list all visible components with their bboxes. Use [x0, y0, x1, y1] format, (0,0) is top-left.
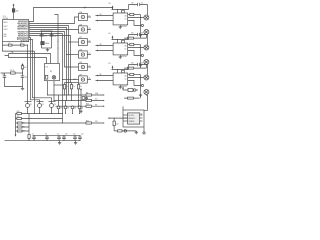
- wire serial TX: [5, 54, 51, 64]
- svg-text:1k: 1k: [80, 86, 82, 88]
- wire stub above bottom box: [122, 106, 124, 110]
- svg-text:O5: O5: [89, 65, 91, 67]
- svg-text:C2: C2: [125, 49, 127, 51]
- node rails: [47, 94, 82, 106]
- lamp M4: [144, 60, 149, 65]
- resistor R31: [130, 43, 134, 45]
- power arrow aux: [122, 87, 128, 91]
- svg-text:IN1: IN1: [100, 14, 102, 16]
- wire leds to rail: [59, 109, 80, 114]
- node mid net b: [57, 47, 58, 48]
- node crystal left: [41, 30, 42, 31]
- rail y122.5 end arrow: [103, 122, 105, 124]
- buzzer circle: [52, 76, 56, 80]
- power arrow OC2: [112, 36, 114, 40]
- led D1: [57, 95, 62, 109]
- buffer U2C: [79, 37, 88, 46]
- wire OC1 pin3: [128, 21, 142, 26]
- wire load vertical OC1: [140, 15, 142, 39]
- wire pin RB3 down to rail B via U2D: [29, 28, 67, 101]
- svg-text:C9: C9: [57, 133, 59, 135]
- rail OC3: [112, 69, 129, 71]
- wire crystal right leg: [51, 31, 53, 48]
- wire crystal bottom: [42, 47, 52, 49]
- resistor R6 pullup: [70, 85, 75, 89]
- wire pin RB5 to buffer U2E: [29, 32, 79, 68]
- led D4: [78, 106, 83, 109]
- connector circle module right: [143, 132, 145, 134]
- svg-text:C13: C13: [116, 123, 119, 125]
- node box G bus a: [53, 84, 54, 85]
- svg-text:PS2501: PS2501: [122, 26, 128, 28]
- node R3/R2: [22, 72, 23, 73]
- power arrow OC1: [112, 6, 114, 10]
- svg-text:C10: C10: [65, 133, 68, 135]
- wire C5 down: [22, 77, 24, 86]
- rail A resistor R8: [86, 92, 92, 96]
- capacitor C30 top wire: [129, 34, 148, 36]
- svg-text:1k: 1k: [73, 86, 75, 88]
- svg-text:D2: D2: [67, 107, 69, 109]
- node rail OC1: [117, 9, 118, 10]
- bottom-right module inner X2: [128, 113, 140, 124]
- rail B resistor R9: [86, 98, 92, 102]
- wire feed U2F: [63, 79, 79, 81]
- ground OC3: [119, 85, 122, 89]
- svg-text:4k7: 4k7: [24, 67, 27, 69]
- svg-text:NO: NO: [141, 113, 143, 115]
- wire pullup top rail: [65, 82, 79, 84]
- svg-text:22p: 22p: [54, 35, 57, 37]
- resistor R17 vertical: [28, 135, 30, 139]
- resistor R40: [122, 70, 125, 74]
- svg-text:R10: R10: [86, 104, 89, 106]
- wire load vertical OC2: [140, 45, 142, 69]
- svg-text:10u: 10u: [25, 77, 28, 79]
- connector circle OC1: [141, 24, 143, 26]
- resistor R30: [122, 40, 125, 44]
- svg-text:R2 1k: R2 1k: [10, 70, 14, 72]
- bottom cap row top wire: [33, 134, 81, 136]
- svg-text:22p: 22p: [44, 35, 47, 37]
- module pin stubs right: [140, 115, 143, 121]
- box G buzzer driver: [45, 64, 60, 81]
- node load OC1: [140, 25, 141, 26]
- svg-text:O3: O3: [89, 40, 91, 42]
- lamp M5: [144, 75, 149, 80]
- wire R6 stubs: [71, 83, 73, 101]
- wire long vertical to rail: [34, 51, 36, 113]
- svg-text:Q2: Q2: [42, 104, 44, 106]
- capacitor C12: [78, 133, 83, 140]
- node rail OC3: [117, 69, 118, 70]
- capacitor C30: [131, 33, 143, 37]
- led D3: [71, 106, 76, 109]
- lamp M2: [144, 30, 149, 35]
- optocoupler OC1: [113, 10, 128, 28]
- wire cap rail riser 3: [128, 65, 130, 70]
- svg-text:OSC1: OSC1: [4, 26, 8, 28]
- relay coil aux: [128, 88, 138, 91]
- rail y118: [16, 118, 63, 120]
- svg-text:D4: D4: [81, 107, 83, 109]
- resistor R32: [124, 67, 146, 69]
- transistor Q1: [25, 102, 32, 114]
- pin stubs IC right: [29, 23, 30, 37]
- svg-text:47u: 47u: [141, 3, 144, 5]
- wire OC3 pin1: [128, 74, 141, 76]
- power VCC arrow top-left: [13, 4, 15, 9]
- IC1 left pin labels: [4, 22, 8, 38]
- svg-text:RB7/KBI3/PGD: RB7/KBI3/PGD: [18, 35, 28, 37]
- wire IC bottom rail 1: [3, 42, 28, 45]
- svg-text:SCL: SCL: [95, 99, 98, 101]
- svg-text:R12: R12: [17, 111, 20, 113]
- IC1 right pin labels: [17, 20, 29, 42]
- resistor R15: [17, 126, 25, 129]
- capacitor C8: [45, 133, 49, 140]
- wire lamp M6 bottom: [145, 94, 147, 97]
- wire pin RB4 to buffer U2B: [29, 29, 79, 31]
- wire C6 down to rail: [5, 77, 23, 86]
- svg-text:K1 G5V: K1 G5V: [129, 115, 134, 117]
- optocoupler OC3: [113, 70, 128, 88]
- capacitor C1: [40, 35, 47, 38]
- wire pin RB7 to pullup rail: [29, 36, 71, 83]
- wire pin RB6 down to buffer U2F: [29, 33, 63, 35]
- svg-text:+5V: +5V: [108, 63, 111, 65]
- rail C end arrow: [103, 105, 105, 107]
- wire OC3 pin2 to lamp M5: [128, 77, 144, 79]
- wire transistor Q1 feed: [27, 45, 29, 101]
- node q1 feed: [27, 45, 28, 46]
- ground OC3 load: [139, 95, 142, 97]
- svg-text:IC1: IC1: [3, 16, 6, 18]
- svg-text:OUT: OUT: [95, 121, 98, 123]
- wire R7 stubs: [78, 83, 80, 107]
- wire OC1 pin2 to lamp M1: [128, 17, 144, 19]
- resistor R22: [124, 37, 146, 39]
- capacitor C13 vertical: [113, 118, 119, 131]
- wire left resistor column: [16, 114, 30, 135]
- svg-text:OSC2: OSC2: [4, 29, 8, 31]
- node U2F feed: [62, 79, 63, 80]
- input wire labels: [100, 14, 102, 76]
- resistor R2: [10, 70, 15, 74]
- wire feed U2D: [67, 54, 79, 56]
- rail emitter y113: [16, 113, 63, 115]
- wire bus vertical long: [62, 34, 64, 124]
- svg-text:RC0/T1OSO/T13: RC0/T1OSO/T13: [17, 37, 28, 39]
- svg-text:+5V: +5V: [108, 33, 111, 35]
- wire U2A out to OC1 input 1: [87, 16, 91, 18]
- wire U2C out to OC2 input 1: [87, 41, 91, 43]
- wire vertical mid net: [55, 15, 59, 64]
- svg-text:RC2/CCP1: RC2/CCP1: [21, 41, 28, 43]
- wire cap to lamp column: [147, 5, 149, 15]
- wire OC1 pin1: [128, 14, 141, 16]
- resistor R12: [17, 111, 22, 115]
- ground mid-left: [21, 87, 24, 91]
- wire U2B out to OC1 input 2: [87, 29, 91, 31]
- buffer U2F: [79, 74, 88, 83]
- resistor R5 pullup: [63, 85, 68, 89]
- svg-text:1k: 1k: [66, 86, 68, 88]
- rail C resistor R10: [86, 104, 92, 108]
- wire pin RC1 to transistor Q3 feed: [29, 40, 52, 102]
- node box G bus b: [62, 84, 63, 85]
- svg-text:47u: 47u: [141, 33, 144, 35]
- node rails bottom: [27, 113, 80, 124]
- svg-text:PS2501: PS2501: [122, 86, 128, 88]
- rail B: [54, 100, 103, 102]
- svg-text:R11: R11: [86, 120, 89, 122]
- svg-text:VSS: VSS: [4, 34, 7, 36]
- svg-text:OMRON: OMRON: [129, 121, 135, 123]
- resistor R4 inside box G: [46, 75, 48, 79]
- led D2: [64, 101, 69, 110]
- wire pin RB2 down to rail A via U2C: [29, 26, 69, 96]
- wire input to module: [109, 117, 127, 119]
- ground OC1: [119, 25, 122, 29]
- wire C6 up: [4, 73, 6, 76]
- svg-text:C12: C12: [81, 133, 84, 135]
- node pullup rail: [70, 82, 71, 83]
- transistor Q2: [37, 102, 44, 114]
- svg-text:INT: INT: [95, 104, 97, 106]
- IC1 microcontroller: [3, 16, 29, 42]
- wire load vertical OC3: [140, 75, 142, 99]
- ground crystal: [46, 48, 49, 52]
- connector circle bottom: [124, 130, 127, 133]
- rail A end arrow: [103, 94, 105, 96]
- connector circle OC2: [141, 54, 143, 56]
- svg-text:L1: L1: [8, 43, 10, 45]
- wire OC2 pin2 to lamp M3: [128, 47, 144, 49]
- lamp M6: [144, 90, 149, 95]
- ground OC2: [119, 55, 122, 59]
- capacitor C20 top wire: [129, 4, 148, 6]
- resistor R21: [130, 13, 134, 15]
- ground bottom 1: [58, 141, 61, 145]
- svg-text:R14: R14: [23, 123, 26, 125]
- svg-text:C7: C7: [32, 133, 34, 135]
- bottom-right module outer: [123, 110, 144, 127]
- rail B end arrow: [103, 100, 105, 102]
- wire pin RB1 to buffer U2A: [29, 17, 79, 24]
- rail y122.5 resistor R11: [86, 120, 92, 124]
- buffer U2A: [79, 11, 88, 21]
- svg-text:47u: 47u: [141, 63, 144, 65]
- wire U2D out to OC2 input 2: [87, 54, 91, 56]
- wire pin RB0 to top rail and block1 VCC: [29, 8, 113, 22]
- svg-text:IN3: IN3: [100, 44, 102, 46]
- svg-text:D3: D3: [74, 107, 76, 109]
- svg-text:C11: C11: [73, 133, 76, 135]
- capacitor C11: [73, 133, 77, 140]
- wire IC bottom rail 2: [3, 45, 35, 51]
- ferrite bead L1: [8, 43, 12, 47]
- wire cap rail riser 2: [128, 35, 130, 40]
- wire R1 to IC1: [13, 12, 15, 19]
- wire R2 left: [1, 72, 11, 74]
- svg-text:U2E: U2E: [79, 62, 82, 64]
- optocoupler OC2: [113, 40, 128, 58]
- power arrow mid-left: [22, 63, 24, 66]
- wire OC2 pin3: [128, 51, 142, 56]
- connector circle OC3: [141, 84, 143, 86]
- resistor R7 pullup: [77, 85, 82, 89]
- lamp M3: [144, 45, 149, 50]
- node U2C feed: [68, 41, 69, 42]
- svg-text:O2: O2: [89, 28, 91, 30]
- power arrow OC3: [112, 66, 114, 70]
- ground bottom 2: [74, 141, 77, 145]
- crystal circuit: wire OSC top: [41, 30, 53, 32]
- capacitor C7: [32, 133, 36, 140]
- svg-text:IN5: IN5: [100, 74, 102, 76]
- buffer U2E: [79, 62, 88, 71]
- svg-text:RB5/KBI1/PGM: RB5/KBI1/PGM: [18, 32, 29, 34]
- wire crystal left leg: [41, 31, 43, 48]
- wire serial RX: [9, 54, 47, 64]
- ground OC2 load: [139, 65, 142, 67]
- wire box G leg1: [47, 81, 49, 95]
- bottom-right rail: [114, 130, 136, 132]
- capacitor C9: [57, 133, 61, 140]
- rail A: [48, 94, 103, 96]
- small part K1 stub: [82, 97, 87, 100]
- wire lamp M2 bottom: [145, 35, 147, 39]
- transistor Q3: [49, 102, 56, 114]
- wire R17 to gnd rail: [28, 138, 30, 140]
- capacitor C6: [2, 74, 6, 77]
- capacitor C2: [50, 35, 57, 38]
- svg-text:R13: R13: [17, 116, 20, 118]
- wire R3 down: [22, 69, 24, 76]
- ferrite bead L2: [20, 43, 24, 47]
- buffer U2D: [79, 49, 88, 58]
- wire module right leg: [143, 127, 145, 132]
- arrow input module: [108, 117, 110, 119]
- wire feed U2C: [69, 41, 79, 43]
- wire cap to lamp column 2: [147, 35, 149, 45]
- svg-text:Q1: Q1: [30, 104, 32, 106]
- wire pin RC0 to transistor Q2 feed: [29, 38, 40, 102]
- node mid net a: [57, 41, 58, 42]
- wire R5 stubs: [64, 83, 66, 96]
- bottom gnd rail: [5, 140, 81, 142]
- resistor R1: [12, 9, 18, 13]
- module pin stubs left: [123, 115, 128, 121]
- ground OC1 load: [139, 35, 142, 37]
- svg-text:MCLR: MCLR: [4, 22, 8, 24]
- resistor R41: [130, 73, 134, 75]
- svg-text:L2: L2: [20, 43, 22, 45]
- svg-text:BZ: BZ: [50, 71, 52, 73]
- svg-text:R8: R8: [86, 92, 88, 94]
- rail OC2: [112, 39, 129, 41]
- capacitor C10: [62, 133, 67, 140]
- svg-text:LS1: LS1: [46, 67, 49, 69]
- wire OC3 pin3: [128, 81, 142, 86]
- svg-text:D1: D1: [60, 107, 62, 109]
- resistor R42: [124, 97, 139, 99]
- resistor R13: [17, 116, 22, 120]
- tick on top rail: [84, 7, 86, 9]
- node load OC3: [140, 85, 141, 86]
- resistor R20: [122, 10, 125, 14]
- wire to bottom-right module from lamp column: [144, 95, 148, 110]
- capacitor C20: [131, 3, 143, 7]
- crystal X1: [41, 42, 50, 45]
- svg-text:+5V: +5V: [108, 3, 111, 5]
- node U2D feed: [66, 54, 67, 55]
- wire R2 right: [15, 72, 22, 74]
- wire lamp M4 bottom: [145, 65, 147, 69]
- svg-text:O6: O6: [89, 78, 91, 80]
- svg-text:O1: O1: [89, 15, 91, 17]
- wire right resistor column: [28, 114, 30, 135]
- svg-text:C6: C6: [2, 74, 4, 76]
- capacitor C40 top wire: [129, 64, 148, 66]
- svg-text:U2F: U2F: [79, 74, 82, 76]
- rail C: [56, 105, 103, 107]
- wire cap to lamp column 3: [147, 65, 149, 75]
- buffer U2B: [79, 24, 88, 33]
- resistor R18: [118, 130, 123, 132]
- resistor R3: [21, 66, 26, 69]
- wire U2E out to OC3 input 1: [87, 66, 91, 68]
- arrow down left column: [15, 135, 17, 137]
- ground bottom-right: [135, 131, 138, 134]
- wire box G to bus: [54, 84, 63, 86]
- svg-text:O4: O4: [89, 53, 91, 55]
- capacitor C40: [131, 63, 143, 67]
- ground mid: [79, 111, 82, 113]
- svg-text:C8: C8: [45, 133, 47, 135]
- wire OC2 pin1: [128, 44, 141, 46]
- svg-text:C2: C2: [125, 19, 127, 21]
- svg-text:RB6/KBI2/PGC: RB6/KBI2/PGC: [18, 34, 28, 36]
- capacitor C5: [21, 76, 28, 79]
- svg-text:VDD: VDD: [4, 36, 7, 38]
- node load OC2: [140, 55, 141, 56]
- node module input: [114, 118, 115, 119]
- wire box G leg2: [53, 81, 55, 101]
- lamp M1: [144, 15, 149, 20]
- resistor R14: [17, 122, 25, 125]
- svg-text:U2B: U2B: [79, 24, 82, 26]
- svg-text:C2: C2: [125, 79, 127, 81]
- svg-text:Q3: Q3: [54, 104, 56, 106]
- pin ticks block inputs: [97, 15, 99, 81]
- svg-text:4MHz: 4MHz: [45, 43, 49, 45]
- rail y122.5: [16, 122, 103, 124]
- rail OC1: [112, 9, 129, 11]
- resistor R16: [17, 130, 25, 133]
- wire U2F out to OC3 input 2: [87, 79, 91, 81]
- svg-text:10k: 10k: [16, 10, 19, 12]
- node rail OC2: [117, 39, 118, 40]
- svg-text:PS2501: PS2501: [122, 56, 128, 58]
- power arrow mid: [80, 88, 82, 111]
- wire cap rail riser: [128, 5, 130, 10]
